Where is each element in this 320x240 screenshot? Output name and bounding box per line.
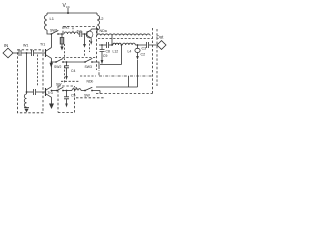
svg-text:NDb: NDb xyxy=(87,80,94,84)
shunt capacitor C9 xyxy=(101,44,103,46)
svg-text:Tr2: Tr2 xyxy=(77,30,82,34)
emitter flow arrowhead xyxy=(50,63,54,68)
capacitor C3 shunt xyxy=(137,45,139,48)
wire SW1 to coil xyxy=(58,33,64,35)
svg-text:C2: C2 xyxy=(141,53,146,57)
inductor L1 xyxy=(45,13,47,30)
port Out diamond xyxy=(157,41,166,50)
svg-text:NDa: NDa xyxy=(100,29,107,33)
capacitor C1 series xyxy=(147,42,158,48)
capacitor C5 xyxy=(64,91,69,104)
transmission line coil xyxy=(97,34,150,36)
svg-text:VCC: VCC xyxy=(63,3,70,9)
vertical link 1 xyxy=(128,76,130,87)
inductor W2 interstage xyxy=(64,32,78,34)
junction dot C5 xyxy=(66,90,68,92)
svg-text:IN: IN xyxy=(4,43,8,48)
svg-text:C4: C4 xyxy=(71,69,75,73)
wire corner from SW3 xyxy=(92,62,99,66)
svg-text:C3: C3 xyxy=(142,47,147,51)
dashed marks column 2 xyxy=(85,40,90,56)
dashed marks column xyxy=(64,44,66,84)
svg-text:C8: C8 xyxy=(106,50,110,54)
transistor Tr3 xyxy=(45,88,47,96)
svg-text:L1: L1 xyxy=(50,16,55,21)
node junction dot xyxy=(61,33,63,35)
capacitor base series xyxy=(34,89,46,95)
switch SW1 xyxy=(50,33,52,35)
wire after SW4 xyxy=(92,91,100,94)
dashed box middle top xyxy=(63,27,97,71)
arrow to ground xyxy=(60,47,63,51)
shunt inductor bottom xyxy=(24,92,26,107)
transistor Tr1 xyxy=(45,49,47,57)
svg-text:L12: L12 xyxy=(113,50,119,54)
input wire xyxy=(13,52,19,54)
tap wire down xyxy=(111,35,113,45)
junction dot xyxy=(84,33,86,35)
svg-text:W1: W1 xyxy=(23,44,28,48)
dashed enclosure right edge 2 xyxy=(156,29,158,86)
arrow below dot xyxy=(84,34,86,44)
capacitor interstage xyxy=(78,31,85,37)
svg-text:Tr1: Tr1 xyxy=(40,42,45,46)
wire to coil xyxy=(63,90,72,92)
top supply rail wire xyxy=(47,12,97,14)
wire to cap xyxy=(27,91,34,93)
capacitor C4 xyxy=(64,62,69,76)
switch SW2 xyxy=(55,61,57,63)
ground bottom left xyxy=(24,107,29,109)
svg-text:C9: C9 xyxy=(103,54,107,58)
switch SW5 xyxy=(56,90,58,92)
svg-text:SW2: SW2 xyxy=(54,65,61,69)
dashed box small bottom xyxy=(58,86,75,113)
vertical link 2 xyxy=(137,60,139,87)
output wire xyxy=(99,44,106,46)
wire input node down xyxy=(26,53,28,92)
Vcc junction dot xyxy=(67,12,69,14)
wire SW2 to SW3 xyxy=(63,61,85,63)
svg-text:L4: L4 xyxy=(128,50,132,54)
svg-text:SW: SW xyxy=(84,94,90,98)
dashed stage box edge xyxy=(37,55,39,87)
dashed enclosure right edge xyxy=(152,28,154,94)
svg-text:SW3: SW3 xyxy=(85,65,92,69)
ground rail 2 xyxy=(96,86,138,88)
svg-text:Tr3: Tr3 xyxy=(48,91,53,95)
wire L1 to SW1 xyxy=(47,30,51,34)
capacitor input 2 xyxy=(32,50,46,56)
capacitor C8 xyxy=(107,42,114,48)
dashed bottom edge 2 xyxy=(76,97,104,99)
wire node to line xyxy=(96,29,98,35)
junction dot bottom xyxy=(26,91,28,93)
emitter row wire xyxy=(52,61,57,63)
port IN diamond xyxy=(3,48,13,58)
dashed box middle bottom edge xyxy=(55,57,97,59)
inductor L12 xyxy=(113,43,121,45)
svg-text:SW1: SW1 xyxy=(50,29,58,33)
dashed box left xyxy=(18,50,44,113)
inductor L4 xyxy=(123,43,147,45)
dashed box output top edge xyxy=(98,37,153,39)
junction dot C4 xyxy=(66,61,68,63)
inductor L5 xyxy=(72,89,85,91)
inductor L2 xyxy=(97,13,100,30)
capacitor input 1 xyxy=(19,50,31,56)
ground Tr3 xyxy=(49,104,54,110)
junction dot xyxy=(137,44,139,46)
switch SW3 xyxy=(84,61,86,63)
Tr2 collector wire to node xyxy=(91,28,97,30)
svg-text:Out: Out xyxy=(157,35,165,40)
dashed divider xyxy=(72,28,74,34)
resistor R1 branch xyxy=(61,34,63,38)
node NDa dot xyxy=(96,28,98,30)
Vcc stub wire xyxy=(67,8,69,13)
junction dot input xyxy=(26,52,28,54)
dashed spur C4 xyxy=(61,80,80,82)
dashed bottom edge xyxy=(96,93,153,95)
switch SW4 xyxy=(84,90,86,92)
dashed spur left xyxy=(80,75,96,77)
control line dash-dot xyxy=(99,66,152,76)
svg-text:L5: L5 xyxy=(74,87,78,91)
svg-text:L2: L2 xyxy=(99,16,104,21)
ground return rail xyxy=(100,45,122,65)
bottom wire xyxy=(52,90,58,92)
